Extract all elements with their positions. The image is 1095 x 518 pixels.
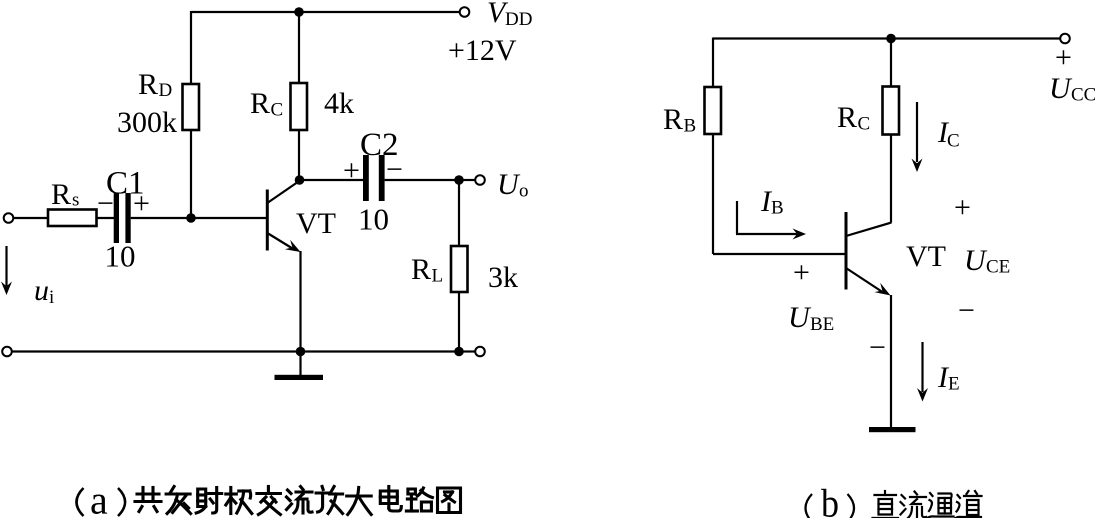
- svg-text:+: +: [793, 256, 810, 289]
- transistor VT b base bar: [845, 212, 848, 290]
- wire RL bottom: [458, 292, 460, 352]
- wire RC b bottom: [890, 135, 892, 223]
- resistor RB: [705, 87, 722, 134]
- terminal Uo: [475, 175, 485, 185]
- svg-text:10: 10: [358, 202, 389, 237]
- svg-text:U: U: [788, 301, 812, 334]
- svg-text:300k: 300k: [117, 106, 177, 139]
- wire input to Rs: [13, 217, 48, 219]
- wire C1 to base node: [131, 217, 191, 219]
- transistor VT emitter arrowhead: [285, 240, 301, 252]
- svg-text:i: i: [49, 287, 54, 308]
- svg-text:B: B: [684, 116, 697, 137]
- wire RB top: [712, 38, 714, 88]
- wire RC top: [298, 12, 300, 83]
- arrow IC: [916, 102, 918, 162]
- ground bar: [275, 375, 324, 380]
- svg-text:+: +: [133, 187, 150, 220]
- svg-text:U: U: [964, 244, 988, 277]
- svg-text:R: R: [51, 178, 71, 211]
- svg-text:s: s: [72, 190, 79, 211]
- arrow IB horizontal: [736, 233, 797, 235]
- wire output node to terminal: [459, 179, 475, 181]
- capacitor C1: [114, 193, 119, 243]
- node junction top: [294, 7, 304, 17]
- wire RC b top: [890, 39, 892, 87]
- svg-text:R: R: [663, 103, 683, 136]
- terminal output bottom: [475, 347, 485, 357]
- wire bottom rail: [12, 350, 459, 352]
- wire RB bottom: [712, 134, 714, 254]
- wire emitter b down: [890, 295, 892, 427]
- wire Rs to C1: [97, 217, 115, 219]
- svg-text:a: a: [90, 478, 108, 518]
- transistor VT base bar: [266, 190, 269, 251]
- ground bar b: [869, 427, 916, 432]
- caption (b) paren left: [806, 494, 813, 518]
- svg-text:+: +: [954, 191, 971, 224]
- arrow ui: [5, 246, 7, 286]
- svg-text:−: −: [869, 331, 886, 364]
- svg-text:C: C: [947, 131, 960, 152]
- caption (a) chinese text: [135, 487, 461, 515]
- svg-text:3k: 3k: [488, 261, 518, 294]
- svg-text:+: +: [343, 154, 360, 187]
- resistor RC: [291, 83, 308, 130]
- terminal input bottom: [2, 347, 12, 357]
- caption (a) paren right: [118, 488, 125, 516]
- svg-text:−: −: [958, 294, 975, 327]
- wire RL top: [458, 180, 460, 246]
- caption (b) chinese text: [873, 491, 982, 518]
- terminal input top: [4, 213, 14, 223]
- svg-text:BE: BE: [810, 314, 834, 335]
- wire emitter down: [299, 251, 301, 352]
- resistor RL: [451, 246, 468, 292]
- resistor Rs: [48, 210, 97, 227]
- svg-text:U: U: [497, 168, 521, 201]
- svg-text:u: u: [34, 274, 49, 307]
- svg-text:DD: DD: [505, 9, 532, 30]
- svg-text:U: U: [1049, 72, 1073, 105]
- arrow IE: [921, 342, 923, 392]
- svg-text:CC: CC: [1071, 85, 1095, 106]
- wire collector node to C2: [299, 179, 363, 181]
- terminal UCC: [1060, 34, 1070, 44]
- transistor VT b emitter arrowhead: [874, 283, 890, 296]
- wire top rail: [191, 11, 459, 13]
- svg-text:R: R: [138, 68, 158, 101]
- svg-text:VT: VT: [296, 207, 336, 240]
- svg-text:L: L: [432, 266, 444, 287]
- svg-text:CE: CE: [986, 257, 1010, 278]
- svg-text:R: R: [250, 87, 270, 120]
- svg-text:R: R: [411, 253, 431, 286]
- svg-text:C: C: [271, 100, 284, 121]
- wire C2 to output node: [385, 179, 459, 181]
- resistor RC b: [883, 87, 900, 135]
- svg-text:−: −: [97, 187, 114, 220]
- svg-text:B: B: [771, 198, 784, 219]
- wire RC bottom to collector node: [298, 130, 300, 180]
- transistor VT collector line: [267, 181, 300, 204]
- svg-text:D: D: [159, 80, 173, 101]
- svg-text:10: 10: [105, 239, 136, 274]
- svg-text:o: o: [519, 181, 529, 202]
- svg-text:R: R: [837, 101, 857, 134]
- node collector: [295, 175, 305, 185]
- svg-text:+12V: +12V: [448, 34, 517, 67]
- node bottom right: [454, 347, 464, 357]
- transistor VT b emitter line: [846, 268, 884, 293]
- transistor VT b collector line: [846, 223, 892, 237]
- node output: [454, 175, 464, 185]
- node base junction: [186, 213, 196, 223]
- node junction top b: [886, 34, 896, 44]
- svg-text:+: +: [1055, 41, 1072, 74]
- wire to bottom right terminal: [459, 350, 475, 352]
- node emitter bottom: [296, 347, 306, 357]
- svg-text:VT: VT: [906, 240, 946, 273]
- svg-text:b: b: [821, 482, 839, 518]
- resistor RD: [183, 84, 200, 130]
- svg-text:C: C: [858, 114, 871, 135]
- transistor VT emitter line: [267, 233, 295, 250]
- arrow IB vertical: [736, 201, 738, 234]
- caption (a) paren left: [77, 488, 84, 516]
- ground stub: [299, 352, 301, 376]
- svg-text:4k: 4k: [324, 87, 354, 120]
- svg-text:E: E: [948, 374, 960, 395]
- caption (b) paren right: [848, 494, 855, 518]
- wire base b: [713, 253, 845, 255]
- terminal VDD: [460, 7, 470, 17]
- wire RD top: [190, 11, 192, 84]
- wire top rail b: [713, 37, 1060, 39]
- capacitor C2: [363, 155, 369, 201]
- wire RD bottom: [190, 130, 192, 218]
- wire base node to transistor: [191, 217, 266, 219]
